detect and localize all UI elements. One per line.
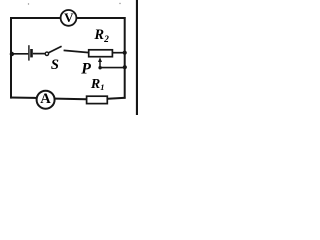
resistor R1 (box) — [87, 96, 108, 103]
speck (scan noise) top-right — [119, 3, 120, 4]
wire: battery to switch — [33, 53, 46, 55]
wire: left vertical of loop — [10, 17, 12, 99]
speck (scan noise) top-left — [28, 3, 29, 4]
junction dot: wiper wire on right wire — [123, 65, 127, 69]
svg-text:S: S — [51, 57, 59, 73]
junction dot: R2 terminal on right wire — [123, 51, 127, 55]
wiper arrow P (slider of rheostat R2) — [98, 57, 102, 68]
battery cell: short thick plate — [30, 49, 33, 57]
wire: right vertical of loop — [124, 17, 126, 99]
resistor R2 (box) — [89, 50, 113, 57]
svg-text:P: P — [81, 60, 91, 77]
wire: wiper to right wire — [100, 67, 125, 69]
wire: bottom horizontal of loop — [10, 98, 126, 100]
border: right edge of figure — [136, 0, 138, 115]
voltmeter V — [61, 10, 77, 26]
wire: middle branch, left wire to battery — [11, 53, 28, 55]
wire: top horizontal of loop — [10, 17, 126, 19]
wire: R2 right terminal to right wire — [112, 52, 124, 54]
switch S (pivot circle and open blade) — [45, 46, 61, 55]
junction dot: left wire / middle branch — [10, 52, 14, 56]
wire: switch to R2 left terminal — [64, 50, 89, 52]
battery cell: long plate — [28, 45, 30, 60]
ammeter A — [37, 91, 55, 109]
svg-text:V: V — [64, 10, 74, 25]
svg-text:A: A — [40, 91, 51, 107]
junction dot: wiper shaft to wiper wire — [98, 66, 101, 69]
